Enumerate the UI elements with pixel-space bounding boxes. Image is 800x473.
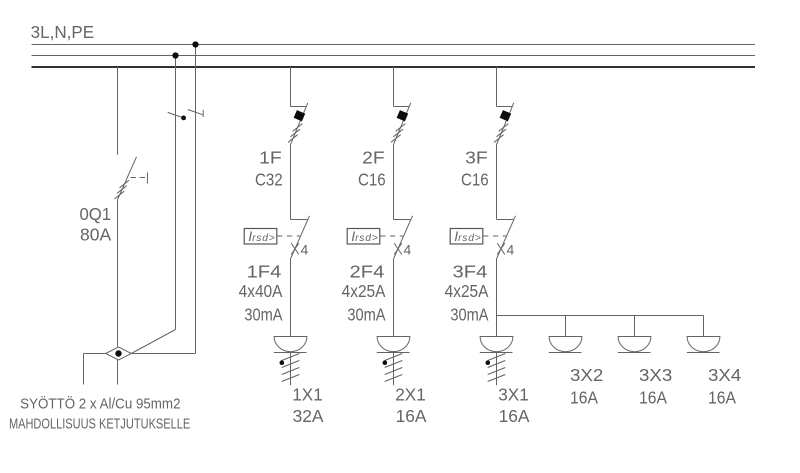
svg-text:3F: 3F [465, 147, 488, 167]
wire earth tail 2X1 [393, 353, 395, 386]
RCD 1F4 top step [291, 219, 308, 221]
svg-text:2F4: 2F4 [350, 262, 385, 282]
svg-text:Irsd>: Irsd> [454, 228, 481, 244]
svg-text:2F: 2F [362, 147, 385, 167]
svg-text:16A: 16A [708, 388, 736, 408]
wire 3F4 distribution branch [497, 315, 704, 317]
svg-text:1X1: 1X1 [292, 384, 322, 404]
socket outlet 2X1 dome [377, 337, 410, 352]
svg-text:4x25A: 4x25A [342, 281, 386, 301]
wire 3F drop from phase bus [496, 67, 498, 107]
PE busbar [32, 44, 756, 46]
RCD 3F4 trip cross [497, 243, 505, 254]
switch-fuse 3F blade [497, 103, 514, 144]
RCD 2F4 dashed link [380, 235, 403, 237]
svg-text:3X4: 3X4 [708, 365, 742, 385]
socket outlet 3X3 base bar [618, 352, 651, 354]
wire 1F4 to socket 1X1 [290, 258, 292, 336]
wire left supply stub [83, 354, 85, 385]
wire 3F4 to socket 3X1 [496, 258, 498, 336]
socket outlet 2X1 base bar [377, 352, 410, 354]
svg-text:16A: 16A [570, 388, 598, 408]
wire N tap drop [175, 56, 177, 330]
RCD 2F4 top step [394, 219, 411, 221]
svg-text:4: 4 [404, 242, 412, 258]
switch-fuse 2F blade [394, 103, 411, 144]
PE tap isolating link with terminal bar [188, 110, 203, 118]
svg-text:30mA: 30mA [244, 304, 282, 324]
N tap isolating link with dot [168, 112, 186, 120]
socket outlet 3X4 base bar [687, 352, 720, 354]
wire drop to socket 3X2 [565, 316, 567, 337]
svg-text:32A: 32A [293, 406, 324, 426]
switch-fuse 1F blade [291, 103, 308, 144]
wire earth tail 1X1 [290, 353, 292, 386]
N busbar [32, 55, 756, 57]
svg-text:4: 4 [507, 242, 515, 258]
switch-fuse 3F 3-pole hatch marks [494, 124, 508, 143]
switch-fuse 0Q1 blade [118, 157, 137, 200]
RCD 3F4 dashed link [483, 235, 506, 237]
svg-text:C32: C32 [255, 169, 283, 189]
svg-text:30mA: 30mA [347, 304, 385, 324]
RCD 1F4 blade [291, 216, 310, 259]
switch-fuse 2F 3-pole hatch marks [391, 124, 405, 143]
wire bottom horizontal supply link [84, 353, 196, 355]
wire 3F to RCD [496, 144, 498, 220]
junction dot N tap [172, 52, 178, 58]
RCD 3F4 top step [497, 219, 514, 221]
wire drop to socket 3X3 [634, 316, 636, 337]
svg-text:30mA: 30mA [450, 304, 488, 324]
wire 1F drop from phase bus [290, 67, 292, 107]
svg-text:1F4: 1F4 [247, 262, 282, 282]
svg-text:SYÖTTÖ 2 x Al/Cu 95mm2: SYÖTTÖ 2 x Al/Cu 95mm2 [20, 395, 180, 413]
socket outlet 3X2 dome [549, 337, 582, 352]
svg-text:4x25A: 4x25A [445, 281, 489, 301]
wire 0Q1 lower drop [117, 199, 119, 346]
0Q1 3-pole hatch marks [115, 180, 130, 199]
socket outlet 3X1 base bar [480, 352, 513, 354]
svg-text:C16: C16 [358, 169, 386, 189]
switch-fuse 1F 3-pole hatch marks [288, 124, 302, 143]
svg-text:Irsd>: Irsd> [351, 228, 378, 244]
earth connection dot 2X1 [383, 360, 388, 365]
RCD 2F4 blade [394, 216, 413, 259]
switch-fuse 2F top step [394, 106, 410, 108]
wire 2F to RCD [393, 144, 395, 220]
earth connection dot 3X1 [486, 360, 491, 365]
socket outlet 1X1 base bar [274, 352, 307, 354]
svg-text:4: 4 [301, 242, 309, 258]
wire N diagonal to junction diamond [131, 330, 175, 354]
3L phase busbar [32, 66, 756, 68]
socket outlet 3X1 dome [480, 337, 513, 352]
svg-text:3X2: 3X2 [570, 365, 603, 385]
RCD 1F4 dashed link [277, 235, 300, 237]
switch-fuse 3F top step [497, 106, 513, 108]
svg-text:16A: 16A [639, 388, 667, 408]
RCD 1F4 sensing box Irsd [244, 229, 277, 245]
switch-fuse 1F fuse body [294, 110, 306, 121]
RCD 3F4 sensing box Irsd [450, 229, 483, 245]
wire earth tail 3X1 [496, 353, 498, 386]
junction diamond connector [106, 347, 132, 360]
svg-text:3L,N,PE: 3L,N,PE [31, 22, 94, 42]
svg-text:C16: C16 [461, 169, 489, 189]
wire PE tap drop [195, 45, 197, 354]
svg-text:4x40A: 4x40A [239, 281, 283, 301]
earth connection dot 1X1 [280, 360, 285, 365]
switch-fuse 1F top step [291, 106, 307, 108]
wire 2F drop from phase bus [393, 67, 395, 107]
socket outlet 3X3 dome [618, 337, 651, 352]
RCD 2F4 trip cross [394, 243, 402, 254]
wire 0Q1 drop from phase bus [117, 67, 119, 155]
earth hatch 2X1 [385, 354, 403, 382]
wire drop to socket 3X4 [703, 316, 705, 337]
svg-text:2X1: 2X1 [395, 384, 425, 404]
switch-fuse 2F fuse body [397, 110, 409, 121]
svg-text:0Q1: 0Q1 [79, 204, 111, 224]
junction diamond centre dot [115, 350, 121, 356]
junction dot PE tap [192, 41, 198, 47]
svg-text:1F: 1F [259, 147, 282, 167]
socket outlet 1X1 dome [274, 337, 307, 352]
RCD 2F4 sensing box Irsd [347, 229, 380, 245]
wire centre supply stub [117, 354, 119, 385]
svg-text:16A: 16A [499, 406, 530, 426]
svg-text:16A: 16A [396, 406, 427, 426]
svg-text:MAHDOLLISUUS KETJUTUKSELLE: MAHDOLLISUUS KETJUTUKSELLE [9, 416, 190, 433]
switch-fuse 3F fuse body [500, 110, 512, 121]
wire 2F4 to socket 2X1 [393, 258, 395, 336]
wire 1F to RCD [290, 144, 292, 220]
0Q1 mechanical linkage dashes [131, 173, 148, 184]
earth hatch 1X1 [282, 354, 300, 382]
socket outlet 3X4 dome [687, 337, 720, 352]
svg-text:3X1: 3X1 [498, 384, 528, 404]
earth hatch 3X1 [488, 354, 506, 382]
svg-text:3F4: 3F4 [453, 262, 488, 282]
svg-text:Irsd>: Irsd> [248, 228, 275, 244]
svg-text:3X3: 3X3 [639, 365, 672, 385]
socket outlet 3X2 base bar [549, 352, 582, 354]
svg-text:80A: 80A [80, 225, 111, 245]
RCD 1F4 trip cross [291, 243, 299, 254]
RCD 3F4 blade [497, 216, 516, 259]
